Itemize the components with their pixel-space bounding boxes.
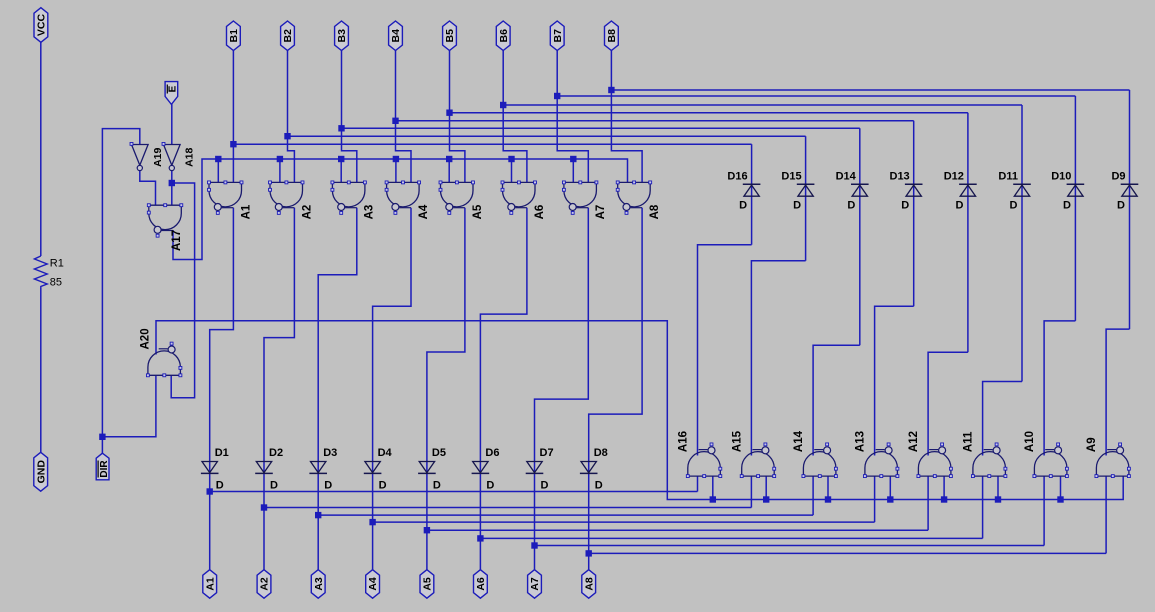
- svg-text:A6: A6: [475, 577, 487, 591]
- svg-text:D: D: [739, 200, 747, 212]
- svg-text:A3: A3: [313, 577, 325, 591]
- svg-text:B2: B2: [282, 29, 294, 43]
- svg-text:A8: A8: [583, 577, 595, 591]
- svg-text:E: E: [168, 85, 179, 92]
- svg-text:D14: D14: [836, 170, 857, 182]
- svg-text:D5: D5: [432, 447, 446, 459]
- svg-text:VCC: VCC: [36, 13, 48, 36]
- svg-text:D7: D7: [540, 447, 554, 459]
- svg-text:85: 85: [50, 277, 62, 289]
- svg-text:A12: A12: [908, 431, 920, 452]
- svg-text:A5: A5: [472, 204, 484, 219]
- svg-text:B8: B8: [606, 29, 618, 43]
- svg-text:D: D: [847, 200, 855, 212]
- svg-text:B4: B4: [390, 29, 402, 43]
- svg-text:A1: A1: [240, 204, 252, 219]
- svg-text:B7: B7: [552, 29, 564, 43]
- svg-text:D: D: [955, 200, 963, 212]
- svg-text:D: D: [1063, 200, 1071, 212]
- svg-text:D4: D4: [378, 447, 393, 459]
- svg-text:A9: A9: [1086, 437, 1098, 452]
- svg-text:A15: A15: [732, 430, 744, 452]
- svg-text:A4: A4: [367, 577, 379, 591]
- svg-text:A14: A14: [793, 430, 805, 452]
- svg-text:A17: A17: [171, 230, 183, 251]
- svg-text:A5: A5: [422, 577, 434, 591]
- svg-text:A13: A13: [855, 431, 867, 452]
- svg-text:D6: D6: [485, 447, 499, 459]
- svg-text:A20: A20: [139, 328, 151, 349]
- svg-text:D13: D13: [890, 170, 910, 182]
- svg-text:GND: GND: [35, 460, 47, 484]
- svg-text:D: D: [1117, 200, 1125, 212]
- svg-text:D: D: [1010, 200, 1018, 212]
- svg-text:D: D: [793, 200, 801, 212]
- svg-text:D3: D3: [323, 447, 337, 459]
- svg-text:A1: A1: [204, 577, 216, 591]
- svg-text:D9: D9: [1111, 170, 1125, 182]
- svg-text:D: D: [486, 479, 494, 491]
- svg-text:B5: B5: [444, 29, 456, 43]
- svg-text:D2: D2: [269, 447, 283, 459]
- svg-text:D8: D8: [594, 447, 608, 459]
- svg-text:D16: D16: [727, 170, 747, 182]
- svg-text:B1: B1: [228, 29, 240, 43]
- svg-text:D: D: [433, 479, 441, 491]
- svg-text:D10: D10: [1051, 170, 1071, 182]
- svg-text:A2: A2: [301, 205, 313, 220]
- svg-text:D: D: [324, 479, 332, 491]
- svg-text:D11: D11: [998, 170, 1018, 182]
- svg-text:A11: A11: [963, 431, 975, 452]
- svg-text:D: D: [901, 200, 909, 212]
- svg-text:A8: A8: [649, 204, 661, 219]
- svg-text:A3: A3: [364, 205, 376, 220]
- svg-text:A7: A7: [595, 205, 607, 220]
- svg-text:A18: A18: [184, 147, 196, 166]
- svg-text:B3: B3: [336, 29, 348, 43]
- svg-text:D: D: [595, 479, 603, 491]
- svg-text:DIR: DIR: [99, 460, 110, 478]
- svg-text:A6: A6: [534, 205, 546, 220]
- svg-text:A2: A2: [259, 577, 271, 591]
- svg-text:A10: A10: [1024, 431, 1036, 452]
- svg-text:A7: A7: [529, 577, 541, 591]
- svg-text:D1: D1: [215, 447, 229, 459]
- svg-text:D: D: [379, 479, 387, 491]
- svg-text:D12: D12: [944, 170, 964, 182]
- svg-text:A4: A4: [418, 204, 430, 219]
- svg-text:R1: R1: [50, 257, 64, 269]
- svg-text:A16: A16: [678, 431, 690, 452]
- svg-text:D15: D15: [781, 170, 801, 182]
- svg-text:D: D: [541, 479, 549, 491]
- svg-text:D: D: [216, 479, 224, 491]
- svg-text:D: D: [270, 479, 278, 491]
- svg-text:B6: B6: [498, 29, 510, 43]
- svg-text:A19: A19: [152, 147, 164, 166]
